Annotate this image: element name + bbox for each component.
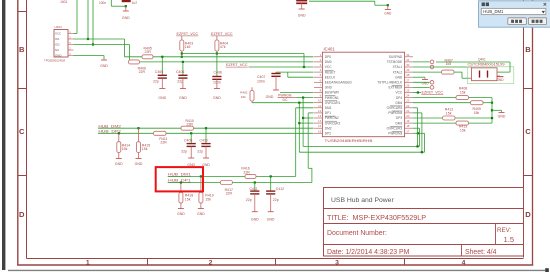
svg-text:22R: 22R (160, 141, 167, 145)
wire crystal right pin loop (436, 62, 510, 72)
row divider ticks left (18, 12, 27, 176)
svg-text:C411: C411 (250, 187, 258, 191)
resistor R402 (240, 87, 254, 103)
svg-text:10k: 10k (241, 95, 246, 99)
svg-text:Date: 1/2/2014 4:38:23 PM: Date: 1/2/2014 4:38:23 PM (327, 249, 410, 256)
svg-text:GND: GND (55, 54, 61, 58)
svg-text:GND: GND (251, 217, 259, 221)
svg-text:Document Number:: Document Number: (327, 230, 387, 237)
svg-text:HUB_DM1: HUB_DM1 (483, 9, 504, 14)
node junction IO1 (87, 38, 89, 40)
title block name text (331, 197, 394, 204)
svg-text:19: 19 (406, 119, 410, 123)
wire IO1 riser to DP0 row (124, 39, 126, 57)
svg-text:HUB_DP1: HUB_DP1 (168, 179, 191, 183)
node R403 taps (181, 52, 183, 58)
svg-text:C409: C409 (184, 139, 192, 143)
black nub bottom right (545, 268, 549, 272)
capacitor C top middle (296, 1, 307, 9)
svg-text:15k: 15k (446, 111, 452, 115)
svg-text:30: 30 (406, 63, 410, 67)
svg-text:DM3: DM3 (395, 121, 402, 125)
wire pulldown rail vertical (491, 98, 493, 124)
ground U404 (74, 56, 109, 69)
svg-text:GND: GND (122, 16, 130, 20)
svg-text:1.5: 1.5 (504, 235, 515, 244)
svg-text:25: 25 (406, 89, 410, 93)
svg-text:PWRON3: PWRON3 (388, 132, 402, 136)
wire TSTMODE row (413, 61, 430, 63)
row letter B right (525, 45, 531, 54)
svg-text:15k: 15k (142, 147, 148, 151)
crystal Q401 (468, 58, 505, 81)
svg-text:EZFET_VCC: EZFET_VCC (177, 32, 199, 36)
svg-text:GND: GND (115, 162, 123, 166)
svg-text:15k: 15k (460, 90, 466, 94)
resistor R408 (456, 87, 469, 100)
node OVRCUR4 joins bus (416, 145, 418, 147)
node R419 tap DM1 (200, 175, 202, 177)
svg-text:GND: GND (384, 11, 392, 15)
svg-text:B: B (525, 45, 531, 54)
wire OVRCUR1 row (252, 102, 314, 104)
search dialog prev button (508, 18, 527, 25)
svg-text:SUSPND: SUSPND (389, 55, 403, 59)
wire DM2 row (98, 127, 313, 129)
svg-text:GND: GND (298, 14, 306, 18)
capacitor C402 top plate (122, 0, 131, 2)
IC401 right pins 32-17 stubs numbers names (377, 53, 413, 136)
ground C406 (179, 89, 187, 100)
search dialog title glyphs (482, 3, 489, 7)
svg-text:C: C (19, 127, 25, 136)
wire GND pin 28 row (413, 76, 425, 78)
node OVRCUR net at row10 (298, 102, 300, 104)
svg-text:TSTMODE: TSTMODE (387, 60, 403, 64)
wire DP1 riser (308, 113, 313, 183)
search dialog combo arrow (542, 11, 545, 14)
node R418 tap DP1 (180, 181, 182, 183)
wire VCC pin25 row (413, 92, 421, 94)
resistor R412 (443, 108, 456, 120)
frame inner right line (523, 0, 525, 258)
svg-text:22R: 22R (243, 170, 250, 174)
resistor R407 (442, 59, 455, 75)
wire TSTPLL row (413, 81, 430, 83)
svg-text:TITLE: MSP-EXP430F5529LP: TITLE: MSP-EXP430F5529LP (327, 213, 426, 222)
svg-text:C410: C410 (200, 139, 208, 143)
title block TITLE text (327, 213, 426, 222)
svg-text:10: 10 (318, 99, 322, 103)
svg-text:J401: J401 (60, 0, 67, 4)
svg-text:U404: U404 (55, 25, 63, 29)
svg-text:14: 14 (318, 119, 322, 123)
wire DP1 row (168, 182, 312, 184)
svg-text:100n: 100n (257, 79, 265, 83)
wire EZFET rail riser to VCC pin row (303, 54, 305, 68)
svg-text:PWRON4: PWRON4 (388, 111, 402, 115)
resistor R410 (181, 119, 194, 130)
wire U404 VCC to top rail (74, 0, 78, 34)
ground C410 (202, 158, 210, 167)
net label EZFET_VCC (VCC row) (226, 63, 248, 67)
search dialog close x (544, 3, 547, 6)
wire DP0 row (125, 56, 314, 58)
row divider ticks right (524, 12, 533, 176)
svg-text:REV:: REV: (497, 227, 511, 234)
svg-text:15k: 15k (122, 147, 128, 151)
title block REV text (497, 227, 511, 234)
svg-text:GND: GND (135, 162, 143, 166)
net label HUB_DM2 (98, 124, 121, 128)
svg-text:DP2: DP2 (325, 132, 331, 136)
testpoint circle XTAL1 (430, 65, 434, 69)
svg-text:26: 26 (406, 83, 410, 87)
node rail DP3 (491, 117, 493, 119)
resistor R403 (180, 36, 193, 57)
svg-text:EZFET_VCC: EZFET_VCC (422, 90, 444, 94)
svg-text:PWRGN: PWRGN (278, 94, 292, 98)
svg-text:Sheet: 4/4: Sheet: 4/4 (465, 249, 497, 256)
node EZFET_VCC right (417, 91, 419, 93)
row letter C left (19, 127, 25, 136)
svg-text:IC401: IC401 (324, 47, 336, 52)
wire U404 IO1 row (74, 38, 125, 40)
wire R409 to pulldown rail (483, 102, 492, 104)
wire DP4 row (413, 97, 456, 99)
wire PWRON2 row (303, 117, 313, 119)
svg-text:21: 21 (406, 109, 410, 113)
wire PWRON3 row right (413, 132, 425, 134)
title block divider lines (324, 209, 524, 257)
node C405 tap (161, 56, 163, 58)
op-amp IC401 body (322, 52, 404, 137)
column number 1 (86, 259, 90, 266)
ground top right (384, 5, 392, 15)
svg-text:1k5: 1k5 (446, 62, 452, 66)
column number 3 (335, 259, 339, 266)
column number 4 (462, 259, 466, 266)
svg-text:22p: 22p (246, 198, 252, 202)
wire top-left vertical to cap junction (111, 0, 126, 6)
svg-text:BUSPWR: BUSPWR (325, 91, 340, 95)
svg-text:GND: GND (177, 212, 185, 216)
node C409 tap DP2 (190, 132, 192, 134)
wire OVRCUR ganged riser (298, 103, 300, 153)
ground R415 (135, 159, 143, 167)
node C412 tap DM1 (270, 175, 272, 177)
ground pulldown rail (498, 110, 506, 118)
node rail DM4 (491, 102, 493, 104)
svg-text:XTAL1: XTAL1 (393, 65, 403, 69)
svg-text:22R: 22R (187, 123, 194, 127)
svg-text:GND: GND (179, 96, 187, 100)
wire VCC row to pin 3 (249, 66, 314, 68)
resistor R405 (142, 46, 153, 58)
net label PWRGN DC (278, 94, 296, 103)
svg-text:NC: NC (55, 48, 59, 52)
crystal Q401 green outline (467, 67, 514, 84)
title block rev value 1.5 (504, 235, 515, 244)
row letter B left (19, 45, 25, 54)
svg-text:GND: GND (197, 212, 205, 216)
svg-text:GND: GND (498, 115, 506, 119)
svg-text:1k5: 1k5 (185, 45, 191, 49)
ground below top caps (122, 6, 130, 20)
svg-text:GND: GND (158, 96, 166, 100)
resistor R414 (117, 133, 130, 158)
column number 2 (209, 259, 213, 266)
svg-text:DM0: DM0 (325, 60, 332, 64)
title block Document Number text (327, 230, 387, 237)
wire OVRCUR bus riser right (424, 133, 426, 152)
ground C412 (267, 212, 275, 222)
resistor R419 (199, 176, 214, 208)
frame outer left line (17, 0, 19, 266)
resistor R411 (154, 131, 168, 144)
svg-text:EECLK: EECLK (325, 75, 336, 79)
node C410 tap DM2 (205, 127, 207, 129)
svg-text:15k: 15k (205, 197, 211, 201)
svg-text:15k: 15k (460, 128, 466, 132)
svg-text:TPD2E001DRLR: TPD2E001DRLR (44, 59, 65, 63)
svg-text:15: 15 (318, 124, 322, 128)
svg-text:PWRON2: PWRON2 (325, 116, 339, 120)
svg-text:32: 32 (406, 53, 410, 57)
wire DP3 row (413, 117, 443, 119)
svg-text:DM1: DM1 (325, 106, 332, 110)
wire EZFET rail row (182, 53, 304, 55)
svg-text:Q401: Q401 (478, 58, 486, 62)
row letter D right (525, 210, 531, 219)
svg-text:GND: GND (395, 75, 403, 79)
ground R418 (177, 209, 185, 216)
ground C408 (213, 89, 221, 100)
svg-text:22p: 22p (153, 80, 159, 84)
ground C405 (158, 89, 166, 100)
ground C407 (266, 90, 279, 99)
node PWRON3 junction (417, 132, 419, 134)
title block Sheet text (465, 249, 497, 256)
svg-text:HUB_DP2: HUB_DP2 (98, 129, 121, 133)
svg-text:C405: C405 (155, 70, 163, 74)
svg-text:12: 12 (318, 109, 322, 113)
svg-text:22: 22 (406, 104, 410, 108)
title block outer box (324, 188, 524, 257)
svg-text:27: 27 (406, 78, 410, 82)
resistor R409 (471, 101, 484, 115)
window edge black bar left (2, 0, 5, 270)
svg-text:TUSB2046BIRHBIRHB: TUSB2046BIRHBIRHB (325, 138, 373, 143)
svg-text:GND: GND (325, 86, 333, 90)
wire OVRCUR2 row (299, 122, 313, 124)
svg-text:USB Hub and Power: USB Hub and Power (331, 197, 394, 204)
svg-text:2: 2 (209, 259, 213, 266)
node junction IO2 (92, 43, 94, 45)
wire vertical from J401 D- (92, 0, 94, 45)
svg-text:C: C (525, 127, 531, 136)
IC401 refdes label (324, 47, 336, 52)
svg-text:22p: 22p (181, 149, 187, 153)
frame inner bottom line (27, 258, 524, 260)
capacitor C412 (266, 176, 284, 211)
svg-text:EEDATA/GANGED: EEDATA/GANGED (325, 81, 353, 85)
svg-text:15k: 15k (474, 111, 480, 115)
svg-text:GND: GND (267, 217, 275, 221)
svg-text:22R: 22R (139, 70, 146, 74)
svg-text:R402: R402 (240, 91, 248, 95)
resistor R418 (179, 183, 193, 209)
node C406 tap (182, 61, 184, 63)
svg-text:23: 23 (406, 99, 410, 103)
svg-text:15k: 15k (185, 197, 191, 201)
node PWRON2 joins (302, 117, 304, 119)
svg-text:EZFET_VCC: EZFET_VCC (211, 32, 233, 36)
svg-text:22p: 22p (273, 198, 279, 202)
IC401 left pins 1-16 stubs numbers names (314, 53, 352, 136)
svg-text:DM4: DM4 (395, 101, 402, 105)
wire R408 to pulldown rail (469, 97, 493, 99)
wire DM3 row (413, 122, 456, 124)
capacitor C410 (197, 128, 210, 158)
svg-text:DP0: DP0 (325, 55, 331, 59)
svg-text:4: 4 (462, 259, 466, 266)
connector J401 label (cut off) (60, 0, 67, 4)
svg-text:PWRON1: PWRON1 (325, 96, 339, 100)
testpoint circle EXTMEM (430, 86, 434, 90)
svg-text:OVRCUR4: OVRCUR4 (387, 106, 403, 110)
resistor R415 (137, 128, 151, 158)
wire PWRON4 drop (413, 113, 422, 152)
ground R419 (197, 209, 205, 216)
node OVRCUR2 joins (298, 122, 300, 124)
ground pin 28 (421, 77, 429, 85)
node R404 tap (216, 52, 218, 54)
capacitor C405 (153, 57, 167, 89)
svg-text:13: 13 (318, 114, 322, 118)
wire OVRCUR4 drop (413, 108, 418, 147)
svg-text:47k: 47k (220, 45, 226, 49)
wire PWRON ganged riser (302, 98, 304, 147)
wire XTAL1 row to crystal (413, 66, 470, 68)
node C411 tap DP1 (254, 181, 256, 183)
wire U404 IO2 row (74, 44, 130, 46)
svg-text:31: 31 (406, 58, 410, 62)
svg-text:D: D (525, 210, 531, 219)
capacitor 100n label top (99, 1, 106, 5)
column divider ticks bottom (148, 259, 405, 266)
node PWRON net at row9 (302, 97, 304, 99)
node PWRON4 joins bus (421, 151, 423, 153)
svg-text:22p: 22p (177, 80, 183, 84)
svg-text:22R: 22R (145, 50, 152, 54)
wire EXTMEM row (413, 86, 430, 88)
capacitor C411 (246, 183, 260, 212)
node EZFET rail joins VCC row (303, 66, 305, 68)
svg-text:DC: DC (283, 98, 289, 102)
wire PWRON bus below IC (303, 145, 419, 147)
U404 refdes label (55, 25, 63, 29)
wire DM1 riser (296, 108, 314, 177)
U404 pins VCC IO1 IO2 NC GND (55, 30, 74, 58)
node top right gnd junction (387, 4, 389, 6)
ground R414 (115, 159, 123, 167)
svg-text:17: 17 (406, 129, 410, 133)
resistor R413 (456, 121, 469, 132)
svg-text:HUB_DM2: HUB_DM2 (98, 124, 121, 128)
svg-text:DP1: DP1 (325, 111, 331, 115)
ground crystal (496, 76, 504, 82)
svg-text:DP4: DP4 (396, 96, 402, 100)
svg-text:100n: 100n (99, 1, 106, 5)
capacitor C409 (181, 133, 196, 158)
svg-text:GND: GND (266, 95, 274, 99)
svg-text:C406: C406 (176, 70, 184, 74)
search dialog combo box (481, 8, 546, 14)
capacitor C408 (212, 54, 222, 89)
svg-text:GND: GND (496, 78, 504, 82)
svg-text:VCC: VCC (325, 65, 332, 69)
wire top right to gnd (309, 1, 388, 5)
net label HUB_DM1 (168, 173, 191, 177)
wire DM1 row (168, 175, 296, 177)
row letter D left (19, 210, 25, 219)
wire R412 to rail (455, 117, 492, 119)
capacitor C407 (257, 72, 281, 90)
svg-text:EZFET_VCC: EZFET_VCC (226, 63, 248, 67)
search dialog combo text HUB_DM1 (483, 9, 504, 14)
svg-text:3: 3 (335, 259, 339, 266)
highlight selection box HUB_DM1/HUB_DP1 (156, 167, 203, 191)
ic U404 body (54, 30, 68, 58)
svg-text:28: 28 (406, 73, 410, 77)
svg-text:C412: C412 (276, 187, 284, 191)
svg-text:DP3: DP3 (396, 116, 402, 120)
search dialog next button (528, 18, 546, 25)
frame outer bottom line (17, 264, 533, 266)
search dialog panel (479, 1, 550, 27)
resistor R417 (220, 181, 233, 196)
svg-text:CSTCR6M00G15L99: CSTCR6M00G15L99 (468, 63, 505, 67)
svg-text:RESET: RESET (325, 70, 336, 74)
wire rail to ground (492, 109, 502, 111)
capacitor C406 (176, 62, 188, 89)
svg-text:GND: GND (100, 64, 108, 68)
wire DM0 row (130, 61, 314, 63)
resistor R404 (215, 36, 228, 54)
svg-text:22R: 22R (226, 192, 233, 196)
net label HUB_DP2 (98, 129, 121, 133)
capacitor 4u7 label top (132, 1, 138, 5)
row letter C right (525, 127, 531, 136)
svg-text:VCC: VCC (55, 32, 61, 36)
ground top middle (298, 9, 306, 18)
svg-text:XTAL2: XTAL2 (393, 70, 403, 74)
svg-text:OVRCUR1: OVRCUR1 (325, 101, 341, 105)
node R415 tap DM2 (137, 127, 139, 129)
svg-text:VCC: VCC (395, 91, 402, 95)
wire XTAL2 row (413, 71, 442, 73)
wire vertical from J401 D+ (87, 0, 89, 39)
wire RESET row (276, 71, 314, 73)
net label EZFET_VCC (right) (421, 90, 443, 94)
wire IO2 riser to DM0 row (129, 45, 131, 62)
svg-text:D: D (19, 210, 25, 219)
window bottom grey divider line (8, 269, 545, 271)
wire OVRCUR3 row right (413, 127, 420, 129)
resistor R406 (129, 60, 147, 74)
svg-text:DM2: DM2 (325, 126, 332, 130)
